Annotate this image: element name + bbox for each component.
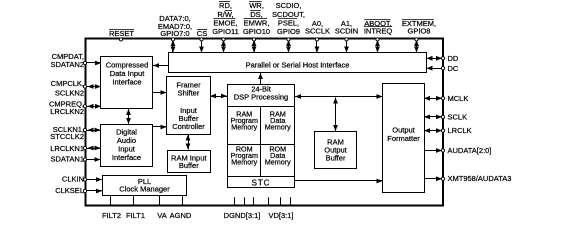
svg-text:DGND[3:1]: DGND[3:1] <box>224 211 261 220</box>
svg-text:XMT958/AUDATA3: XMT958/AUDATA3 <box>448 174 512 183</box>
svg-text:Interface: Interface <box>112 153 141 162</box>
svg-text:Formatter: Formatter <box>387 134 420 143</box>
svg-text:LRCLK: LRCLK <box>448 126 472 135</box>
svg-text:CMPCLK,: CMPCLK, <box>51 79 84 88</box>
svg-text:STCCLK2: STCCLK2 <box>50 132 84 141</box>
svg-text:SCLK: SCLK <box>448 112 468 121</box>
svg-text:SCLKN2: SCLKN2 <box>55 88 84 97</box>
svg-text:GPIO11: GPIO11 <box>212 27 239 36</box>
svg-text:RESET: RESET <box>109 29 134 38</box>
svg-text:VD[3:1]: VD[3:1] <box>268 211 293 220</box>
svg-text:SCDIN: SCDIN <box>335 27 358 36</box>
svg-text:WR,: WR, <box>249 1 264 10</box>
svg-text:AGND: AGND <box>170 211 192 220</box>
svg-text:DC: DC <box>448 64 459 73</box>
svg-text:MCLK: MCLK <box>448 94 469 103</box>
svg-text:STC: STC <box>252 179 271 188</box>
svg-text:INTREQ: INTREQ <box>364 27 393 36</box>
svg-text:CLKIN: CLKIN <box>62 174 84 183</box>
svg-text:SDATAN2: SDATAN2 <box>51 60 84 69</box>
svg-text:VA: VA <box>157 211 166 220</box>
svg-text:GPIO10: GPIO10 <box>243 27 270 36</box>
svg-text:FILT1: FILT1 <box>126 211 145 220</box>
svg-text:GPIO7:0: GPIO7:0 <box>160 29 189 38</box>
svg-text:GPIO9: GPIO9 <box>277 27 300 36</box>
svg-text:DD: DD <box>448 54 459 63</box>
svg-text:LRCLKN2: LRCLKN2 <box>50 107 84 116</box>
svg-text:Memory: Memory <box>231 123 257 132</box>
svg-text:Parallel or Serial Host Interf: Parallel or Serial Host Interface <box>246 60 350 69</box>
svg-text:RD,: RD, <box>219 1 232 10</box>
svg-text:Buffer: Buffer <box>179 161 199 170</box>
svg-text:Memory: Memory <box>265 123 291 132</box>
svg-text:Memory: Memory <box>231 158 257 167</box>
svg-text:Controller: Controller <box>172 122 205 131</box>
svg-text:LRCLKN1: LRCLKN1 <box>50 144 84 153</box>
svg-text:Buffer: Buffer <box>326 154 346 163</box>
svg-text:CLKSEL: CLKSEL <box>55 186 84 195</box>
svg-text:Clock Manager: Clock Manager <box>119 185 170 194</box>
svg-text:Shifter: Shifter <box>178 89 200 98</box>
svg-text:GPIO8: GPIO8 <box>408 27 431 36</box>
svg-text:AUDATA[2:0]: AUDATA[2:0] <box>448 146 492 155</box>
svg-text:SCDIO,: SCDIO, <box>276 1 302 10</box>
svg-text:Interface: Interface <box>112 78 141 87</box>
svg-text:SDATAN1: SDATAN1 <box>51 155 84 164</box>
svg-text:DSP Processing: DSP Processing <box>234 93 288 102</box>
svg-text:Memory: Memory <box>265 158 291 167</box>
svg-text:FILT2: FILT2 <box>102 211 121 220</box>
svg-text:CS: CS <box>197 29 207 38</box>
svg-text:SCCLK: SCCLK <box>305 27 330 36</box>
